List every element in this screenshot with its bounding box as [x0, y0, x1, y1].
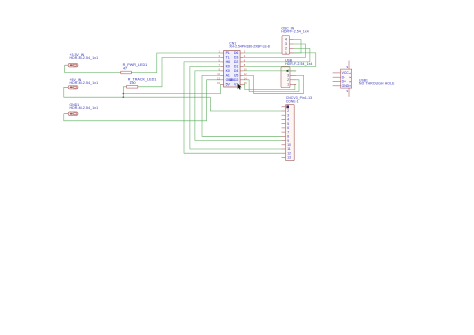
- wire IC row3 to OSC_IN pin2: [243, 48, 310, 62]
- svg-text:2: 2: [287, 78, 289, 82]
- wire R_TRACK_LED1 to IC pin TL: [139, 58, 221, 87]
- svg-text:4: 4: [285, 38, 287, 42]
- junction dot on USB pin4 wire: [286, 70, 288, 72]
- svg-text:47: 47: [123, 67, 127, 71]
- wire IC row6 to USB pin3: [243, 75, 303, 93]
- CN1 left pin names: [226, 51, 234, 86]
- wire +5V rail to CONE pin2: [64, 87, 282, 111]
- CN1 right pin numbers: [244, 50, 247, 85]
- wire R_PWR_LED1 to IC pin PL: [132, 53, 220, 73]
- USB1 shield pin numbers: [347, 65, 349, 93]
- svg-text:3: 3: [287, 74, 289, 78]
- svg-text:U5: U5: [234, 74, 239, 78]
- CN1 right pin names: [229, 51, 239, 86]
- svg-text:D3: D3: [234, 56, 239, 60]
- USB1 pin numbers: [348, 72, 352, 87]
- svg-text:TL: TL: [226, 56, 230, 60]
- svg-text:D6: D6: [234, 51, 239, 55]
- OSC_IN pin numbers: [285, 38, 287, 55]
- svg-text:HDR-M-2.54_1x1: HDR-M-2.54_1x1: [70, 106, 99, 110]
- connector P3 GND1 HDR-M-2.54_1x1: [64, 103, 98, 115]
- wire IC row1 to OSC_IN pin4: [243, 40, 301, 54]
- wire IC row5 to USB pin4: [243, 70, 296, 72]
- CONE-1 pins: [282, 107, 286, 158]
- svg-text:PL: PL: [226, 51, 230, 55]
- svg-text:5V: 5V: [226, 83, 231, 87]
- connector P2 +5V_IN HDR-M-2.54_1x1: [64, 78, 98, 89]
- CONE-1 pin numbers: [287, 105, 291, 160]
- wire IC row4 to CONE pin11: [190, 66, 282, 149]
- USB header pins: [290, 71, 296, 84]
- svg-text:2: 2: [285, 47, 287, 51]
- CONE-1 pin1 marker: [286, 105, 289, 108]
- connector USB1 THROUGH HOLE: [333, 61, 396, 97]
- svg-text:HDR-F-2.54_1x4: HDR-F-2.54_1x4: [281, 30, 308, 34]
- mouse cursor arrow: [238, 84, 242, 90]
- svg-text:GND2: GND2: [229, 78, 239, 82]
- junction dot +5V rail / R_TRACK branch: [123, 96, 125, 98]
- svg-text:1: 1: [287, 83, 289, 87]
- wire IC row4 to OSC_IN pin1: [243, 53, 315, 67]
- svg-text:XH-2.54PH180-2X8P-LE-8: XH-2.54PH180-2X8P-LE-8: [229, 45, 270, 49]
- USB1 pin names: [342, 71, 350, 88]
- header USB HDR-F-2.54_1x4: [281, 59, 312, 88]
- junction dot 5V pin line: [123, 93, 125, 95]
- wire IC row3 to CONE pin12: [184, 62, 282, 153]
- svg-text:HDR-M-2.54_1x1: HDR-M-2.54_1x1: [70, 56, 99, 60]
- svg-text:D2: D2: [234, 60, 239, 64]
- svg-text:HDR-F-2.54_1x4: HDR-F-2.54_1x4: [285, 62, 312, 66]
- svg-text:1: 1: [285, 51, 287, 55]
- connector CONE-1 CNCV3_Pin1-13: [282, 96, 313, 161]
- svg-text:V1: V1: [234, 83, 238, 87]
- USB header pin numbers: [287, 69, 289, 86]
- svg-text:150: 150: [129, 81, 135, 85]
- connector P1 +3.3V_IN HDR-M-2.54_1x1: [65, 53, 99, 67]
- svg-text:HDR-M-2.54_1x1: HDR-M-2.54_1x1: [70, 81, 99, 85]
- svg-text:D4: D4: [234, 69, 239, 73]
- header OSC_IN HDR-F-2.54_1x4: [281, 26, 308, 55]
- CN1 right pins: [240, 53, 243, 84]
- resistor R_PWR_LED1 47: [120, 63, 147, 74]
- svg-text:A1: A1: [226, 74, 230, 78]
- svg-text:K0: K0: [226, 69, 230, 73]
- svg-text:3: 3: [285, 42, 287, 46]
- wire +3.3V rail: [65, 65, 120, 72]
- svg-text:K0: K0: [226, 65, 230, 69]
- wire IC row5 to CONE pin9: [195, 71, 282, 141]
- OSC_IN pins: [290, 40, 294, 53]
- wire IC row6 to CONE pin8: [202, 75, 282, 136]
- wire IC row2 to OSC_IN pin3: [243, 44, 305, 58]
- CN1 left pin numbers: [217, 50, 220, 85]
- resistor R_TRACK_LED1 150: [126, 78, 157, 89]
- USB1 left pins: [333, 73, 341, 86]
- IC CN1 XH-2.54PH180-2X8P-LE-8: [217, 42, 270, 87]
- USB1 shield pin bottom: [348, 88, 350, 97]
- wire +5V branch to R_TRACK_LED1: [123, 87, 125, 97]
- wire GND rail to IC pin GND: [64, 80, 221, 121]
- USB1 shield pin top: [348, 61, 350, 70]
- svg-text:13: 13: [287, 156, 291, 160]
- CN1 left pins: [220, 53, 223, 84]
- wire 5V pin of CN1 to +5V net: [123, 84, 220, 93]
- svg-text:CONE-1: CONE-1: [286, 99, 299, 103]
- svg-text:D1: D1: [234, 65, 239, 69]
- svg-text:NO THROUGH HOLE: NO THROUGH HOLE: [359, 82, 395, 86]
- wire IC row7 to USB pin2: [243, 80, 299, 92]
- svg-text:H6: H6: [226, 60, 231, 64]
- wire IC row8 to USB pin1: [243, 84, 296, 89]
